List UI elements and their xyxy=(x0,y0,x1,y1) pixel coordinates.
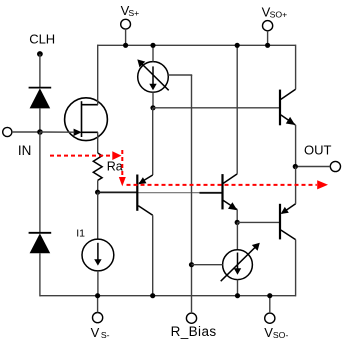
svg-text:I1: I1 xyxy=(76,228,85,240)
node R_Bias to CS2 junction xyxy=(189,262,194,267)
svg-text:V: V xyxy=(91,325,100,340)
svg-text:SO+: SO+ xyxy=(270,10,288,20)
node top rail junction VSO+ xyxy=(265,43,270,48)
node bottom rail junction VSO- xyxy=(267,293,272,298)
diode D2 xyxy=(29,233,52,253)
node top rail junction VS+ xyxy=(123,43,128,48)
wire CS1 to mirror node xyxy=(152,92,154,108)
wire Q2 collector to top rail xyxy=(236,45,238,174)
svg-text:R_Bias: R_Bias xyxy=(171,324,217,339)
node OUT junction xyxy=(293,164,298,169)
wire base node down to I1 xyxy=(97,192,99,239)
wire resistor to base node xyxy=(97,180,99,192)
variable current source CS2 (bottom) xyxy=(221,243,260,281)
signal path red arrow vertical xyxy=(119,150,126,186)
wire R_Bias node to CS2 left xyxy=(192,264,223,266)
wire mirror node down to Q1 emitter xyxy=(152,108,154,175)
wire D1 to IN node xyxy=(39,108,41,132)
svg-text:CLH: CLH xyxy=(29,32,55,47)
svg-text:IN: IN xyxy=(18,143,32,158)
wire Q3 emitter to OUT node xyxy=(295,125,297,167)
svg-text:S+: S+ xyxy=(128,8,139,18)
wire Q3 collector to top rail corner xyxy=(295,45,297,90)
wire Q2 emitter node to output PNP base xyxy=(237,221,280,223)
terminal VSO+ xyxy=(262,4,288,45)
wire mirror node to output NPN base xyxy=(153,107,280,109)
node Q2 emitter junction xyxy=(235,220,240,225)
wire CS1 right lead to R_Bias line xyxy=(168,75,191,76)
node IN junction xyxy=(37,129,43,135)
svg-text:V: V xyxy=(264,325,273,340)
wire Q2 emitter node down to CS2 xyxy=(236,222,238,250)
wire OUT node to Q4 emitter xyxy=(295,167,297,204)
wire Q2 emitter to node xyxy=(236,210,238,223)
transistor Q4 (output PNP) xyxy=(280,204,296,240)
wire Q1 base to Q2 base xyxy=(137,192,199,194)
terminal VS- xyxy=(91,296,110,340)
node CLH xyxy=(29,32,55,57)
node mirror junction xyxy=(150,105,155,110)
terminal VS+ xyxy=(121,3,140,45)
wire Q2 base lead xyxy=(199,192,222,194)
svg-text:Ra: Ra xyxy=(107,159,123,173)
signal path red arrow horizontal 2 xyxy=(127,180,329,189)
node bottom rail junction Q1 collector xyxy=(150,293,155,298)
node Ra bottom junction xyxy=(95,190,100,195)
node bottom rail junction VS- xyxy=(95,293,100,298)
terminal VSO- xyxy=(264,296,288,340)
transistor Q1 (PNP left) xyxy=(137,175,152,216)
terminal OUT xyxy=(296,143,341,172)
resistor Ra xyxy=(93,153,122,180)
wire Q1 collector to bottom rail xyxy=(152,215,154,296)
wire IN node to diode D2 xyxy=(39,132,41,233)
wire I1 to bottom rail xyxy=(97,271,99,296)
wire D2 to bottom rail xyxy=(39,253,41,296)
variable current source CS1 (top) xyxy=(137,59,168,92)
current source I1 xyxy=(76,228,114,271)
wire JFET source down to resistor xyxy=(97,132,99,153)
node top rail junction CS1 xyxy=(150,43,155,48)
node bottom rail junction CS2 xyxy=(235,293,240,298)
transistor Q2 (NPN middle) xyxy=(223,174,238,210)
svg-text:SO-: SO- xyxy=(273,330,289,340)
transistor Q3 (output NPN) xyxy=(280,89,296,125)
wire JFET drain to top rail xyxy=(97,45,99,105)
wire CS2 to bottom rail xyxy=(237,280,239,296)
svg-text:OUT: OUT xyxy=(304,143,332,158)
JFET J1 input transistor xyxy=(40,98,107,141)
terminal IN xyxy=(3,127,40,158)
wire CLH to diode D1 xyxy=(39,54,41,88)
wire top supply rail xyxy=(98,44,296,46)
node top rail junction Q2 collector xyxy=(235,43,240,48)
signal path red arrow horizontal 1 xyxy=(50,151,122,160)
svg-text:S-: S- xyxy=(101,330,110,340)
wire base node to PNP Q1 base xyxy=(98,191,138,193)
wire bottom supply rail xyxy=(40,295,296,297)
terminal R_Bias xyxy=(171,313,217,339)
diode D1 xyxy=(29,88,52,109)
wire Q4 collector to bottom rail corner xyxy=(295,240,297,297)
wire R_Bias vertical line xyxy=(191,75,193,313)
wire top rail to CS1 xyxy=(152,45,154,61)
